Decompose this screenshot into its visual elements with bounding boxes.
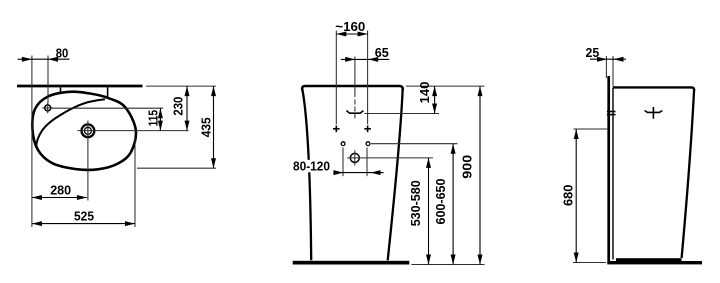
dimension 530-580 bbox=[408, 158, 431, 265]
extension ~160 left bbox=[335, 31, 337, 125]
bracket tick left bbox=[60, 87, 62, 93]
faucet cross (side) bbox=[645, 107, 663, 119]
svg-text:80-120: 80-120 bbox=[293, 159, 330, 174]
svg-text:65: 65 bbox=[375, 45, 389, 60]
wall line (thick vertical) bbox=[607, 76, 610, 264]
svg-text:435: 435 bbox=[199, 117, 214, 137]
extension line basin right (525 right) bbox=[134, 138, 136, 227]
dimension 900 bbox=[460, 86, 483, 264]
dimension 25 bbox=[586, 45, 627, 62]
drain outer circle bbox=[82, 124, 95, 137]
fixing hole right bbox=[366, 142, 370, 146]
overflow level extension right bbox=[365, 113, 440, 115]
dimension 115 bbox=[146, 108, 163, 130]
extension 25 left (wall face) bbox=[605, 56, 607, 78]
extension line left (80/280/525) bbox=[31, 56, 33, 228]
svg-text:80: 80 bbox=[56, 46, 69, 61]
extension line faucet level (115 top) bbox=[51, 107, 163, 109]
svg-text:140: 140 bbox=[417, 82, 432, 104]
pedestal left side bbox=[302, 89, 311, 261]
extension line faucet (80 right) bbox=[47, 56, 49, 104]
pedestal top edge bbox=[613, 87, 694, 90]
faucet cross right bbox=[364, 126, 371, 133]
centerline (65 left extension, dashed through overflow) bbox=[354, 57, 356, 98]
dimension 435 bbox=[199, 86, 217, 168]
svg-text:25: 25 bbox=[586, 45, 600, 60]
680 top extension bbox=[574, 128, 608, 130]
extension ~160 right bbox=[367, 31, 369, 125]
dimension 80 bbox=[18, 46, 70, 62]
dimension ~160 bbox=[335, 19, 367, 36]
extension 80-120 right (below right hole) bbox=[366, 148, 368, 177]
dimension 680 bbox=[560, 129, 578, 263]
dimension 280 bbox=[32, 183, 87, 200]
dimension 65 bbox=[341, 45, 390, 62]
fixing holes level extension right bbox=[371, 143, 458, 145]
basin bottom extension line (435 bottom) bbox=[137, 167, 216, 169]
top edge extension right bbox=[406, 85, 485, 87]
svg-text:~160: ~160 bbox=[335, 19, 365, 34]
svg-text:230: 230 bbox=[171, 97, 186, 116]
svg-text:900: 900 bbox=[460, 155, 475, 179]
bracket tick right bbox=[107, 87, 109, 97]
basin outer rim bbox=[32, 92, 136, 170]
drain crosshair vertical + extension to 280 dim bbox=[87, 121, 89, 201]
dimension 80-120 bbox=[293, 159, 384, 176]
bracket ticks on wall bbox=[607, 111, 616, 113]
basin inner bowl bbox=[36, 99, 105, 147]
svg-text:115: 115 bbox=[146, 110, 161, 127]
dimension 230 bbox=[171, 86, 190, 131]
pedestal back edge bbox=[612, 88, 614, 260]
overflow mark (smile) bbox=[346, 111, 363, 114]
floor line (thick horizontal) bbox=[607, 261, 702, 264]
extension 80-120 left (below left hole) bbox=[342, 148, 344, 177]
680 bottom (floor) extension bbox=[573, 262, 606, 264]
pedestal top edge bbox=[302, 86, 403, 90]
faucet cross left bbox=[333, 126, 340, 133]
faucet hole bbox=[45, 105, 51, 111]
svg-text:680: 680 bbox=[560, 185, 575, 206]
svg-text:525: 525 bbox=[74, 209, 94, 224]
dimension 525 bbox=[32, 209, 135, 227]
extension 25 right (pedestal back) bbox=[612, 56, 614, 87]
floor level extension right bbox=[412, 264, 485, 266]
svg-text:280: 280 bbox=[50, 183, 71, 198]
drain inner circle bbox=[84, 127, 91, 134]
pedestal bottom edge bbox=[616, 258, 682, 261]
pedestal front edge bbox=[682, 90, 695, 259]
drain crosshair + extension to right dims bbox=[77, 130, 188, 132]
pedestal base plate (thick bar) bbox=[293, 261, 410, 265]
wall line (thick) bbox=[17, 85, 143, 88]
drain circle bbox=[350, 153, 359, 162]
wall level extension line to right dims bbox=[146, 85, 216, 87]
dimension 140 bbox=[417, 82, 437, 114]
drain level extension right bbox=[362, 157, 433, 159]
svg-text:530-580: 530-580 bbox=[408, 180, 423, 226]
svg-text:600-650: 600-650 bbox=[433, 179, 448, 225]
fixing hole left bbox=[341, 142, 345, 146]
pedestal right side bbox=[388, 89, 403, 261]
dimension 600-650 bbox=[433, 144, 456, 265]
